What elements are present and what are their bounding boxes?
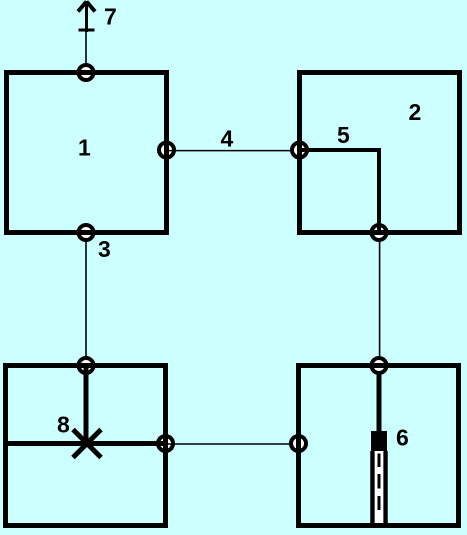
element 6 thick stem <box>377 374 382 432</box>
svg-text:3: 3 <box>98 236 111 262</box>
wire (thin line from box 2 bottom to box 6 top) <box>379 242 381 357</box>
svg-text:6: 6 <box>396 425 409 451</box>
node on box 8 right edge <box>158 436 173 451</box>
svg-text:1: 1 <box>78 135 91 161</box>
svg-text:4: 4 <box>221 126 234 152</box>
element 6 right rail <box>383 451 388 526</box>
element 6 white channel <box>375 451 384 523</box>
node on box 1 right edge <box>159 143 174 158</box>
element 5 inner square top edge <box>297 148 379 152</box>
node on box 6 left edge <box>291 436 306 451</box>
node on box 2 bottom edge <box>372 225 387 240</box>
element 5 inner square right edge <box>377 148 381 235</box>
node on box 2 left edge <box>292 143 307 158</box>
box 6 (bottom-right block) <box>299 366 459 526</box>
arrow 7 crossbar <box>79 29 95 32</box>
element 6 filled head <box>371 431 387 451</box>
X mark 8 <box>73 430 101 458</box>
arrow 7 head <box>78 2 87 12</box>
thick drop line inside box 8 <box>84 366 89 444</box>
divider line across box 8 <box>3 441 168 446</box>
element 6 dashed core <box>378 454 381 468</box>
arrow 7 stem <box>85 1 88 32</box>
node on box 6 top edge <box>372 358 387 373</box>
node on box 1 top edge <box>79 65 94 80</box>
node on box 1 bottom edge <box>79 225 94 240</box>
element 6 left rail <box>370 451 375 526</box>
wire (thin line between box 8 and box 6) <box>166 443 290 445</box>
box 2 (top-right block) <box>300 73 460 233</box>
box 8 (bottom-left block) <box>6 366 166 526</box>
wire 3 (thin line from box 1 bottom to box 8 top) <box>85 242 87 357</box>
wire 4 (thin line between box 1 and box 2) <box>167 150 291 152</box>
svg-text:8: 8 <box>57 412 70 438</box>
svg-text:7: 7 <box>104 4 117 30</box>
box 1 (top-left block) <box>7 73 167 233</box>
svg-text:2: 2 <box>409 99 422 125</box>
wire 7 (thin lead from arrow down to node on box 1 top) <box>85 32 87 64</box>
svg-text:5: 5 <box>337 122 350 148</box>
node on box 8 top edge <box>79 358 94 373</box>
